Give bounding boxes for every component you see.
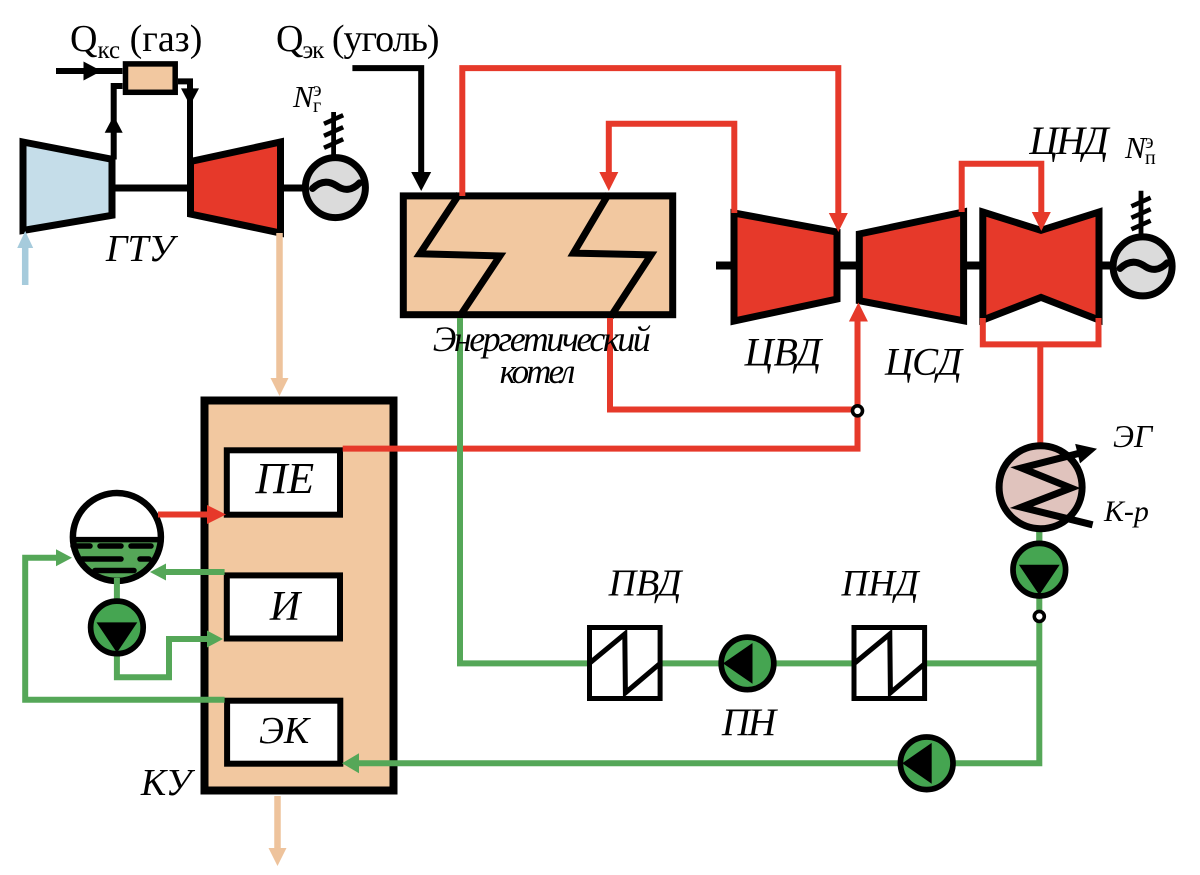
- HP cylinder TsVD: [734, 213, 837, 321]
- steam drum: [69, 493, 165, 585]
- label Qks (gas): [70, 18, 202, 64]
- svg-text:ПН: ПН: [721, 701, 778, 744]
- air inlet arrow: [17, 231, 33, 285]
- electrical lead G1: [324, 112, 343, 156]
- boiler heating surface zigzag 2: [574, 194, 652, 317]
- label TsSD: [884, 341, 964, 384]
- svg-text:котел: котел: [500, 352, 575, 391]
- svg-text:ЭК: ЭК: [259, 710, 311, 752]
- economizer section EK box: [227, 701, 340, 764]
- drum to circulation pump line: [114, 578, 120, 605]
- label Qek (coal): [276, 18, 439, 64]
- circulation pump to evaporator line: [117, 631, 223, 678]
- TsND exhaust hood to condenser: [983, 318, 1099, 446]
- svg-text:ЭГ: ЭГ: [1113, 418, 1154, 454]
- combustion chamber to turbine line: [178, 81, 199, 161]
- GTU compressor: [23, 142, 112, 231]
- steam line TsSD to TsND: [962, 164, 1051, 231]
- boiler heating surface zigzag 1: [420, 194, 500, 317]
- HRSG boiler KU: [205, 401, 394, 791]
- drum circulation pump: [91, 601, 144, 654]
- feedwater line to boiler: [460, 318, 1039, 663]
- GTU shaft: [112, 185, 305, 192]
- condensate riser from condenser: [358, 528, 1039, 763]
- label N_p: [1124, 130, 1156, 169]
- label EK: [259, 710, 311, 752]
- label K-r: [1103, 495, 1149, 528]
- condenser to pump stub: [1036, 528, 1042, 548]
- svg-text:ГТУ: ГТУ: [105, 228, 179, 270]
- superheater section PE box: [227, 450, 340, 514]
- electrical lead G2: [1131, 191, 1150, 234]
- label PN: [721, 701, 778, 744]
- LP heater PND box: [854, 628, 925, 699]
- main steam line boiler to TsVD: [462, 68, 848, 232]
- label PND: [841, 564, 921, 605]
- IP cylinder TsSD: [859, 212, 963, 321]
- label EG: [1113, 418, 1154, 454]
- node reheat junction: [853, 406, 863, 416]
- svg-text:Qкс (газ): Qкс (газ): [70, 18, 202, 64]
- generator G1: [305, 158, 365, 218]
- svg-text:КУ: КУ: [140, 762, 196, 804]
- HP heater PVD box: [590, 628, 661, 699]
- fuel gas supply line: [56, 62, 123, 81]
- drum to superheater PE line: [158, 505, 226, 524]
- label boiler line1: [433, 319, 651, 359]
- cold reheat line TsVD to boiler: [599, 124, 734, 213]
- GTU exhaust gas duct to KU: [271, 233, 289, 396]
- condenser K-r: [999, 439, 1099, 529]
- label TsND: [1028, 118, 1111, 163]
- label TsVD: [744, 330, 824, 375]
- feed pump PN: [721, 637, 774, 690]
- label PE: [254, 454, 314, 503]
- node condensate junction: [1034, 611, 1044, 621]
- coal supply line: [352, 68, 431, 191]
- svg-text:г: г: [313, 95, 321, 117]
- svg-text:ЦНД: ЦНД: [1028, 118, 1111, 163]
- label I: [269, 584, 303, 630]
- condensate pump: [1013, 543, 1066, 596]
- label GTU: [105, 228, 179, 270]
- feedwater arrow into economizer EK: [342, 753, 359, 773]
- label KU: [140, 762, 196, 804]
- evaporator section I box: [227, 575, 340, 638]
- label boiler line2: [500, 352, 575, 391]
- superheated steam line PE to node: [343, 320, 858, 449]
- combustion chamber KS: [126, 64, 176, 92]
- svg-text:ПНД: ПНД: [841, 564, 921, 605]
- hot reheat line boiler to TsSD: [610, 303, 868, 410]
- downcomer EK to drum: [25, 549, 224, 700]
- svg-text:ЦВД: ЦВД: [744, 330, 824, 375]
- svg-text:ПВД: ПВД: [608, 563, 684, 605]
- turbine shaft segments: [716, 262, 1111, 270]
- svg-text:К-р: К-р: [1103, 495, 1149, 528]
- compressor to combustion chamber line: [105, 86, 123, 160]
- label PVD: [608, 563, 684, 605]
- svg-text:ЦСД: ЦСД: [884, 341, 964, 384]
- KU feed pump: [900, 737, 953, 790]
- energy boiler box: [403, 196, 672, 315]
- label N_g: [292, 79, 322, 117]
- KU flue gas outlet: [269, 796, 287, 866]
- GTU gas turbine: [191, 142, 281, 233]
- generator G2: [1113, 237, 1172, 296]
- svg-text:И: И: [269, 584, 303, 630]
- svg-text:ПЕ: ПЕ: [254, 454, 314, 503]
- evaporator to drum line: [150, 564, 225, 581]
- svg-text:Qэк (уголь): Qэк (уголь): [276, 18, 439, 64]
- LP cylinder TsND: [983, 212, 1099, 320]
- svg-text:п: п: [1145, 147, 1156, 169]
